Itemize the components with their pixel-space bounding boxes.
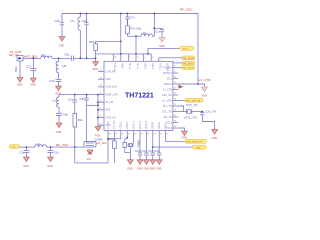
svg-text:CUR_PA: CUR_PA <box>105 70 115 73</box>
inductor L6 series <box>41 53 52 58</box>
node junction C9 bottom <box>97 104 99 106</box>
svg-text:L6x: L6x <box>41 53 46 57</box>
svg-text:RSSOU: RSSOU <box>163 72 172 75</box>
svg-text:14: 14 <box>174 99 176 101</box>
wire RP1 bottom row to pin1 <box>96 53 152 55</box>
svg-text:LF_GA: LF_GA <box>107 121 110 129</box>
svg-text:RF_VCC: RF_VCC <box>56 143 69 147</box>
svg-text:C8x: C8x <box>63 112 69 116</box>
node flag DRL_SCLK <box>182 66 196 70</box>
svg-text:13: 13 <box>154 134 156 136</box>
svg-text:RXD_WRTE_DO: RXD_WRTE_DO <box>187 141 203 143</box>
svg-text:GND: GND <box>59 45 65 48</box>
node junction C2TN <box>201 111 203 113</box>
wire riser down seg <box>74 147 76 163</box>
ground pink under C10 <box>159 38 165 49</box>
node junction bus x127.5 <box>127 13 129 15</box>
wire flag5 from pin <box>166 136 185 141</box>
svg-text:C2x: C2x <box>54 150 60 154</box>
wire bus drop to pin2 <box>120 14 122 54</box>
wire pin19 to ground <box>178 128 184 131</box>
capacitor C24 <box>141 136 148 160</box>
svg-text:M_L0: M_L0 <box>128 63 131 70</box>
ground under C23 <box>137 160 143 171</box>
svg-text:GND: GND <box>143 168 149 171</box>
capacitor C2 <box>82 14 89 59</box>
svg-text:6: 6 <box>160 60 161 62</box>
capacitor C2TN <box>200 110 216 122</box>
node junction L7 bottom <box>79 57 81 59</box>
svg-text:CUR_SO: CUR_SO <box>105 116 115 119</box>
node RF VCC label bottom <box>56 143 69 147</box>
wire pill ANT stub <box>178 100 185 102</box>
svg-text:RXD: RXD <box>196 147 201 149</box>
svg-text:C24: C24 <box>141 149 147 153</box>
svg-text:21: 21 <box>100 116 102 118</box>
inductor L11 series <box>35 142 47 147</box>
svg-text:SEL1: SEL1 <box>151 63 154 70</box>
node junction bus x154 <box>153 13 155 15</box>
svg-text:3: 3 <box>137 57 138 59</box>
svg-text:25: 25 <box>100 85 102 87</box>
inductor L8 shunt <box>56 58 67 79</box>
node junction x120.8 y41 <box>120 40 122 42</box>
svg-text:DRL_WOS: DRL_WOS <box>183 63 194 65</box>
svg-text:17: 17 <box>128 134 130 136</box>
svg-text:20: 20 <box>109 134 111 136</box>
svg-text:RF_D: RF_D <box>183 48 189 50</box>
node junction pin20 <box>107 138 109 140</box>
pin numbers right U1 <box>174 66 176 129</box>
node junction C2 bottom <box>86 57 88 59</box>
svg-text:16: 16 <box>174 110 176 112</box>
pin numbers left U1 <box>100 70 102 126</box>
svg-text:uC_UTN: uC_UTN <box>162 99 172 102</box>
ground under C22 <box>47 157 53 168</box>
svg-text:C26: C26 <box>154 149 160 153</box>
ground under RP1 column <box>92 62 98 72</box>
node junction x154 y28 <box>153 27 155 29</box>
svg-text:GND: GND <box>56 131 62 134</box>
node junction row x120.8 <box>120 53 122 55</box>
node flag ANT_uATT_TN <box>185 98 204 102</box>
wire loop filter row <box>108 136 121 139</box>
wire flag6 from pin <box>152 136 154 152</box>
node flag RXD_WRTE_DO <box>185 139 207 143</box>
svg-text:VCO_1: VCO_1 <box>132 120 135 129</box>
pin stubs left U1 <box>98 72 104 126</box>
pin stubs bottom U1 <box>108 131 166 137</box>
svg-text:DRL_DSOH: DRL_DSOH <box>183 58 195 60</box>
svg-text:12: 12 <box>174 88 176 90</box>
svg-text:C7x: C7x <box>130 15 136 19</box>
wire C9 bottom tie <box>87 104 98 106</box>
node ANT_50 label <box>24 55 38 59</box>
ground under C26 <box>156 160 162 171</box>
wire vcc bottom row <box>20 146 35 148</box>
svg-text:TXD: TXD <box>11 147 16 149</box>
wire resonator to cap <box>192 111 203 113</box>
ground under C19 <box>55 86 61 95</box>
svg-text:GNDP: GNDP <box>152 121 155 129</box>
node junction L8 <box>58 57 60 59</box>
svg-text:GND: GND <box>17 84 23 87</box>
wire uC row pin11 <box>178 83 198 85</box>
capacitor C16 <box>55 14 65 37</box>
crystal Q2 resonator <box>184 109 197 120</box>
svg-text:18: 18 <box>174 121 176 123</box>
wire after C5 <box>73 57 95 59</box>
ground pink uC <box>201 87 207 98</box>
svg-text:27: 27 <box>100 70 102 72</box>
ground under C17 <box>30 78 36 87</box>
wire crystal ground lead <box>129 147 131 160</box>
ground under C8L <box>56 123 62 134</box>
svg-text:14: 14 <box>147 134 149 136</box>
svg-text:CP_OU: CP_OU <box>113 120 116 129</box>
wire C2TN to ground jog <box>202 122 214 130</box>
inductor L7 <box>70 14 80 59</box>
capacitor C8L <box>56 112 68 123</box>
pin labels right U1 <box>162 66 173 130</box>
svg-text:16: 16 <box>134 134 136 136</box>
svg-text:15: 15 <box>141 134 143 136</box>
port ANT connector <box>17 56 23 62</box>
svg-text:2: 2 <box>129 57 130 59</box>
svg-text:VDD: VDD <box>121 63 124 68</box>
capacitor C25 <box>148 149 155 160</box>
svg-text:GND: GND <box>47 165 53 168</box>
svg-text:20: 20 <box>100 123 102 125</box>
capacitor C19 <box>49 79 62 86</box>
svg-text:R15: R15 <box>108 137 114 141</box>
svg-text:CTC_TN: CTC_TN <box>162 110 172 113</box>
svg-text:VTCL_TN: VTCL_TN <box>184 116 197 120</box>
svg-text:GND: GND <box>30 84 36 87</box>
wire antenna tee to ground <box>95 58 97 61</box>
node signal arrow pin11 <box>179 85 184 89</box>
svg-text:IN_AM: IN_AM <box>105 101 113 104</box>
svg-text:VCO_3: VCO_3 <box>145 120 148 129</box>
svg-text:GND: GND <box>23 165 29 168</box>
svg-text:C8x: C8x <box>136 27 142 31</box>
pin labels bottom U1 <box>107 120 168 129</box>
svg-text:RP1: RP1 <box>89 40 95 44</box>
svg-text:C1x: C1x <box>68 98 74 102</box>
svg-text:GND: GND <box>201 95 207 98</box>
wire antenna row <box>23 57 41 59</box>
capacitor C26 <box>154 136 161 160</box>
svg-text:PLL_TN: PLL_TN <box>163 105 172 108</box>
svg-text:50Ω: 50Ω <box>14 66 18 72</box>
ground under port <box>17 78 23 87</box>
svg-text:26: 26 <box>100 77 102 79</box>
svg-text:SEL0: SEL0 <box>143 63 146 70</box>
svg-text:C25: C25 <box>148 149 154 153</box>
node junction C17 <box>32 57 34 59</box>
svg-text:22: 22 <box>100 108 102 110</box>
svg-text:HD2: HD2 <box>105 109 111 112</box>
node junction uC row <box>197 83 199 85</box>
svg-text:15: 15 <box>174 104 176 106</box>
ground pin19 <box>181 131 187 140</box>
node junction bus x122.5 <box>120 13 122 15</box>
ground right branch <box>212 130 218 141</box>
pin labels top U1 <box>113 63 169 72</box>
svg-text:AM_TN: AM_TN <box>164 116 173 119</box>
wire bus pin ties <box>0 0 1 1</box>
svg-text:ANT_uATT_TN: ANT_uATT_TN <box>186 99 201 102</box>
node LF label <box>97 141 108 145</box>
svg-text:1: 1 <box>122 57 123 59</box>
svg-text:GND: GND <box>212 137 218 140</box>
ground under C16 <box>59 37 65 48</box>
capacitor C17 <box>26 58 36 78</box>
wire flag1 riser <box>147 48 149 54</box>
svg-text:L9x: L9x <box>142 31 147 35</box>
svg-text:C16: C16 <box>55 19 61 23</box>
pin numbers bottom U1 <box>109 134 168 136</box>
resistor R7 chain <box>126 19 136 36</box>
ground under C21 <box>23 157 29 168</box>
svg-text:TXDATA: TXDATA <box>163 66 173 69</box>
wire RP1 top to bus drop <box>96 40 121 42</box>
svg-text:11: 11 <box>174 82 176 84</box>
node uC_VTR label <box>199 78 212 82</box>
svg-text:L1x: L1x <box>36 142 41 146</box>
svg-text:C2x: C2x <box>19 150 25 154</box>
svg-text:8: 8 <box>174 66 175 68</box>
svg-text:C2x_TN: C2x_TN <box>205 110 216 114</box>
svg-text:CUR_LNA: CUR_LNA <box>105 86 117 89</box>
ground under XT1 <box>127 160 133 171</box>
node C8 label <box>136 27 142 31</box>
node flag DRL_WOS <box>182 61 196 65</box>
node CTC_TN label <box>186 103 197 107</box>
node flag RXD <box>193 145 207 149</box>
svg-text:RXD0: RXD0 <box>158 122 161 129</box>
svg-text:C19: C19 <box>49 79 55 83</box>
pin stubs right U1 <box>173 68 178 129</box>
capacitor C22 <box>48 147 60 157</box>
svg-text:GND: GND <box>150 168 156 171</box>
svg-text:CTC_TN: CTC_TN <box>186 103 197 107</box>
svg-text:C23: C23 <box>135 149 141 153</box>
inductor L10 shunt <box>52 95 59 114</box>
svg-text:XTAL1: XTAL1 <box>120 121 123 129</box>
wire L9 to bus riser <box>152 14 154 37</box>
pin numbers top U1 <box>114 57 161 62</box>
wire VCC right drop <box>197 14 199 85</box>
svg-text:4: 4 <box>144 57 145 59</box>
wire pin4 drop <box>135 36 137 54</box>
svg-text:5: 5 <box>152 57 153 59</box>
svg-text:9: 9 <box>174 71 175 73</box>
svg-text:GND: GND <box>137 168 143 171</box>
node flag TXD <box>9 145 20 149</box>
svg-text:C2x: C2x <box>82 19 88 23</box>
node junction pin4 drop <box>135 35 137 37</box>
node junction L7 top <box>79 13 81 15</box>
node RF_IN label <box>9 53 18 57</box>
svg-text:XTAL2: XTAL2 <box>126 121 129 129</box>
resistor RP1 <box>89 40 97 58</box>
wire pin15 jog to resonator <box>178 106 184 112</box>
ground under C25 <box>150 160 156 171</box>
ground under C24 <box>143 160 149 171</box>
svg-text:FSK_OU: FSK_OU <box>162 94 172 97</box>
wire left mixer row <box>59 94 98 96</box>
svg-text:12: 12 <box>160 134 162 136</box>
svg-text:VCC: VCC <box>167 77 172 80</box>
pin stubs top U1 <box>113 54 159 61</box>
svg-text:M_L1: M_L1 <box>136 63 139 70</box>
svg-text:VDD: VDD <box>105 78 110 81</box>
wire mid row y36 <box>128 35 142 37</box>
node junction flag6 <box>152 146 154 148</box>
capacitor C5 series <box>65 52 74 61</box>
ground under Q3 <box>87 150 93 161</box>
node flag RF_D <box>180 46 195 50</box>
svg-text:TH71221: TH71221 <box>125 92 154 99</box>
svg-text:RF_VCC: RF_VCC <box>180 8 193 12</box>
svg-text:24: 24 <box>100 93 102 95</box>
svg-text:19: 19 <box>115 134 117 136</box>
svg-text:GWR_LON: GWR_LON <box>105 93 118 96</box>
node junction riser top <box>74 94 76 96</box>
wire resonator column <box>86 105 88 141</box>
capacitor C23 <box>135 136 142 160</box>
svg-text:L1x: L1x <box>52 99 57 103</box>
wire after L11 <box>47 146 84 148</box>
capacitor C21 <box>19 147 29 157</box>
svg-text:DRL_SCLK: DRL_SCLK <box>183 68 194 70</box>
node RF VCC label <box>180 8 193 12</box>
pin labels left U1 <box>105 70 118 127</box>
svg-text:GND: GND <box>92 68 98 71</box>
ground left bus <box>95 127 101 138</box>
crystal XT1 <box>123 136 140 152</box>
svg-text:MIXOU: MIXOU <box>164 83 172 86</box>
node junction row x136 <box>135 53 137 55</box>
crystal Q3 filter <box>84 137 104 147</box>
op-amp U1 TH71221 body <box>104 61 173 130</box>
svg-text:C9x: C9x <box>80 97 86 101</box>
svg-text:11: 11 <box>166 134 168 136</box>
node junction C9 top <box>86 94 88 96</box>
svg-text:uC_VTR: uC_VTR <box>199 78 212 82</box>
wire pin20 column <box>107 136 109 163</box>
wire resonator row <box>178 111 186 113</box>
svg-text:LF_GA: LF_GA <box>97 141 108 145</box>
wire bottom return <box>75 162 108 164</box>
svg-text:C17: C17 <box>26 65 32 69</box>
node junction gnd bus top <box>97 94 99 96</box>
svg-text:18: 18 <box>122 134 124 136</box>
wire flag4 to pin8 <box>178 67 181 69</box>
svg-text:R1x: R1x <box>78 118 84 122</box>
node junction bus ties <box>97 101 99 118</box>
capacitor C10 stub <box>154 28 164 37</box>
svg-text:10: 10 <box>174 77 176 79</box>
wire flag3 stub <box>173 62 182 64</box>
svg-text:PG: PG <box>87 158 91 161</box>
node junction RP1 bottom tee <box>95 57 97 59</box>
node TX_OUT label <box>10 50 22 54</box>
capacitor C11 riser <box>68 95 77 114</box>
svg-text:C1x: C1x <box>155 30 161 34</box>
resistor R12 riser <box>73 114 83 148</box>
wire uC stub right <box>198 84 205 87</box>
wire VCC top bus <box>62 13 198 15</box>
svg-text:23: 23 <box>100 100 102 102</box>
svg-text:VCO_2: VCO_2 <box>139 120 142 129</box>
svg-text:19: 19 <box>174 126 176 128</box>
node junction C22 <box>50 146 52 148</box>
svg-text:13: 13 <box>174 93 176 95</box>
inductor L9 <box>141 31 152 36</box>
svg-text:GND: GND <box>127 168 133 171</box>
wire after L6 <box>52 57 71 59</box>
wire flag1 to pin7 <box>148 47 180 49</box>
wire gnd bus vertical <box>97 95 99 127</box>
node junction C21 <box>26 146 28 148</box>
capacitor C9 shunt <box>80 95 89 106</box>
wire flag6 row <box>153 146 193 148</box>
svg-text:TxD_L: TxD_L <box>159 63 162 71</box>
wire port ground stub <box>14 61 20 78</box>
svg-text:C5x: C5x <box>65 52 71 56</box>
svg-text:RXD1: RXD1 <box>164 122 167 129</box>
node junction C2 top <box>86 13 88 15</box>
node flag DRL_DSOH <box>182 56 196 60</box>
wire flag2 to pin6 <box>159 57 182 59</box>
resistor R15 <box>108 136 116 163</box>
capacitor C7 chain <box>125 14 135 25</box>
svg-text:IN_CTR: IN_CTR <box>163 88 172 91</box>
node junction riser bottom <box>74 146 76 148</box>
svg-text:L8x: L8x <box>62 64 67 68</box>
svg-text:28: 28 <box>114 57 116 59</box>
svg-text:17: 17 <box>174 115 176 117</box>
svg-text:GND: GND <box>156 168 162 171</box>
svg-text:GND: GND <box>159 45 165 48</box>
svg-text:L7x: L7x <box>70 19 75 23</box>
